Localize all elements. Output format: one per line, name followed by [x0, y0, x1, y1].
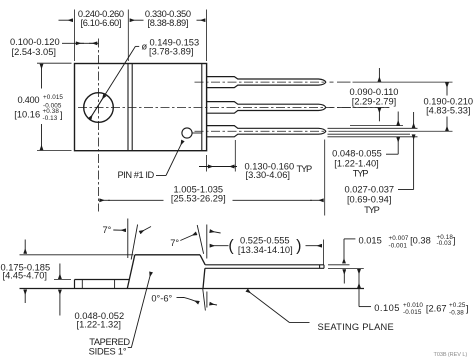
lead 3 (bottom) outline — [207, 126, 326, 137]
lead side view top — [205, 264, 324, 266]
seating plane leader — [247, 290, 290, 322]
svg-text:[3.30-4.06]: [3.30-4.06] — [246, 170, 290, 180]
tab plate top — [75, 279, 130, 281]
extension line tab division — [127, 10, 129, 62]
extension line body left edge — [74, 10, 76, 62]
svg-text:[25.53-26.29]: [25.53-26.29] — [171, 194, 226, 204]
dim 0.048-0.052 arrows — [59, 264, 61, 279]
svg-text:0.100-0.120: 0.100-0.120 — [10, 37, 60, 47]
extension line body top-left — [37, 62, 72, 64]
hole diameter leader — [135, 45, 139, 47]
dim 0.090-0.110 arrows — [378, 68, 380, 82]
7deg right arrows — [180, 234, 196, 241]
body top extension line — [20, 254, 134, 256]
svg-text:[2.67: [2.67 — [426, 303, 447, 313]
svg-text:PIN #1 ID: PIN #1 ID — [118, 170, 155, 180]
dim 0.400 vertical arrows — [41, 64, 43, 88]
7deg right: vertical reference — [206, 225, 208, 259]
body inner right chamfer line — [201, 64, 203, 150]
svg-text:-0.38: -0.38 — [449, 309, 464, 316]
svg-text:+0.007: +0.007 — [389, 235, 409, 242]
lead 1 (top) outline — [207, 77, 326, 88]
dim 0.027-0.037 arrows and leader — [413, 112, 415, 128]
dim 0.048-0.055 arrows and leader — [397, 112, 399, 126]
right face extension below body — [206, 292, 208, 308]
dim 0.100-0.120 line with outward arrows — [62, 42, 99, 44]
7deg left: mold draft line — [131, 225, 137, 260]
dim 0.130-0.160 extension lines — [206, 155, 208, 172]
dim 0.330-0.350 right arrow — [197, 19, 206, 21]
svg-text:[4.83-5.33]: [4.83-5.33] — [426, 106, 470, 116]
lead 3 thin-top extension line — [328, 127, 418, 129]
lead end — [323, 265, 325, 269]
pin 1 tick to body edge — [192, 132, 202, 134]
0-6 deg draft line below body — [203, 289, 206, 311]
svg-text:[13.34-14.10]: [13.34-14.10] — [238, 245, 293, 255]
lead side view bottom — [205, 267, 324, 269]
tapered sides leader — [128, 272, 151, 347]
svg-text:SIDES 1°: SIDES 1° — [89, 346, 127, 356]
0-6 deg opposing arrow — [210, 304, 217, 305]
svg-text:7°: 7° — [170, 238, 179, 248]
svg-text:[1.22-1.40]: [1.22-1.40] — [334, 159, 378, 169]
lead 1 centerline — [195, 81, 327, 83]
svg-text:-0.001: -0.001 — [389, 243, 408, 250]
svg-text:T03B (REV L): T03B (REV L) — [434, 352, 468, 358]
svg-text:): ) — [296, 238, 301, 255]
svg-text:-0.015: -0.015 — [403, 309, 422, 316]
svg-text:[8.38-8.89]: [8.38-8.89] — [147, 18, 188, 28]
pin 1 ID circle — [182, 128, 192, 138]
lead 3 thick-bottom extension line — [328, 136, 418, 138]
7deg right: mold draft line — [197, 225, 203, 254]
svg-text:+0.25: +0.25 — [449, 302, 466, 309]
svg-text:[1.22-1.32]: [1.22-1.32] — [77, 320, 121, 330]
body left tapered face — [127, 255, 135, 289]
svg-text:0°-6°: 0°-6° — [151, 294, 172, 304]
svg-text:0.015: 0.015 — [359, 235, 382, 245]
svg-text:+0.010: +0.010 — [403, 302, 423, 309]
svg-text:(: ( — [228, 238, 234, 255]
svg-text:[6.10-6.60]: [6.10-6.60] — [80, 18, 121, 28]
svg-text:[0.69-0.94]: [0.69-0.94] — [347, 194, 391, 204]
svg-text:SEATING PLANE: SEATING PLANE — [318, 322, 394, 332]
svg-text:0.400: 0.400 — [18, 95, 40, 105]
svg-text:7°: 7° — [102, 225, 111, 235]
svg-text:TYP: TYP — [364, 205, 379, 215]
lead top extension — [328, 264, 350, 266]
extension line body right edge — [206, 10, 208, 62]
body top-right chamfer — [200, 255, 205, 265]
dim 0.015 leader bracket and arrows — [344, 238, 355, 240]
svg-text:TYP: TYP — [297, 164, 312, 174]
dim 0.175-0.185 arrows — [24, 240, 26, 254]
dim 0.105 arrows — [358, 269, 360, 278]
svg-text:0.027-0.037: 0.027-0.037 — [344, 184, 394, 194]
dim 0.240-0.260 right arrow — [130, 19, 144, 21]
svg-text:0.048-0.055: 0.048-0.055 — [332, 148, 382, 158]
svg-text:[4.45-4.70]: [4.45-4.70] — [3, 271, 47, 281]
body horizontal centerline — [78, 106, 389, 108]
svg-text:TYP: TYP — [353, 168, 368, 178]
bottom line: tab + body bottom + seating plane extension — [20, 288, 365, 290]
dim 0.240-0.260 left arrow — [59, 19, 73, 21]
lead tip tick — [319, 265, 321, 269]
body right face below lead — [203, 268, 205, 288]
hole vertical centerline — [98, 39, 100, 212]
lead 2 (middle) outline — [207, 102, 326, 114]
PIN #1 ID leader — [156, 175, 166, 177]
dim 0.130-0.160 line with outward arrows — [199, 166, 237, 168]
7deg left arrows — [113, 229, 125, 231]
dim 0.190-0.210 arrows — [446, 83, 448, 96]
lead 3 thin-bottom extension line — [328, 133, 411, 135]
svg-text:]: ] — [453, 236, 456, 246]
package body outline — [75, 64, 207, 151]
mounting hole — [84, 93, 114, 123]
tab top extension line — [54, 279, 71, 281]
tab hole hidden edges — [81, 280, 83, 289]
lead 3 thick-top extension line — [350, 125, 403, 127]
lead tip extension (side view) — [323, 240, 325, 265]
svg-text:[0.38: [0.38 — [410, 236, 431, 246]
svg-text:]: ] — [60, 110, 63, 120]
tab left end — [74, 280, 76, 289]
svg-text:[2.29-2.79]: [2.29-2.79] — [352, 97, 396, 107]
extension line body bottom-left — [37, 150, 72, 152]
lead bottom extension — [328, 267, 364, 269]
svg-text:-0.13: -0.13 — [43, 115, 58, 122]
svg-text:+0.015: +0.015 — [43, 94, 63, 101]
dim 1.005-1.035 line — [100, 199, 110, 201]
tab/body division double line — [127, 64, 129, 150]
svg-text:ø: ø — [142, 41, 148, 51]
svg-text:[3.78-3.89]: [3.78-3.89] — [149, 47, 193, 57]
lead 2 centerline extension — [330, 106, 334, 108]
svg-text:[2.54-3.05]: [2.54-3.05] — [12, 47, 56, 57]
svg-text:0.105: 0.105 — [374, 303, 400, 313]
lead tip extension line (top view) — [324, 140, 326, 216]
lead 3 centerline — [195, 130, 327, 132]
dim 0.525 left arrow — [210, 245, 229, 247]
svg-text:-0.03: -0.03 — [437, 240, 452, 247]
7deg left: vertical reference — [127, 219, 129, 259]
body top edge — [135, 254, 200, 256]
svg-text:]: ] — [466, 303, 469, 313]
0-6 deg leader arrow — [177, 297, 199, 302]
dim 0.525 right arrow — [306, 245, 322, 247]
svg-text:[10.16: [10.16 — [14, 110, 40, 120]
